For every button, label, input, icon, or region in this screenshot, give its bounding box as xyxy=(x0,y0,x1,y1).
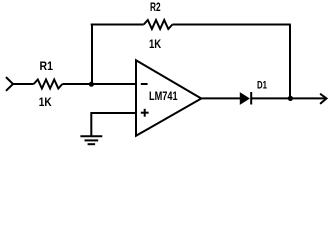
diode D1 xyxy=(240,92,251,105)
resistor R2 xyxy=(144,20,173,29)
svg-text:1K: 1K xyxy=(39,97,53,109)
node junction at inverting input xyxy=(89,82,94,87)
wire feedback left vertical xyxy=(91,25,93,85)
output arrow xyxy=(321,94,327,103)
wire feedback top left xyxy=(91,24,144,26)
wire non-inverting input xyxy=(91,113,136,136)
svg-text:R2: R2 xyxy=(150,2,161,14)
svg-text:1K: 1K xyxy=(149,39,162,51)
ground xyxy=(80,136,102,144)
svg-text:R1: R1 xyxy=(40,61,54,73)
node junction at output xyxy=(288,96,293,101)
wire R1 to inverting input xyxy=(62,83,136,85)
minus sign at inverting input xyxy=(141,83,148,85)
svg-text:LM741: LM741 xyxy=(149,91,178,103)
op-amp U1 LM741 xyxy=(136,60,201,136)
plus sign at non-inverting input xyxy=(141,109,149,117)
wire feedback top right xyxy=(172,24,290,26)
wire op-amp output to diode xyxy=(201,97,240,99)
wire diode to output xyxy=(251,97,326,99)
wire feedback right vertical xyxy=(289,25,291,99)
input port arrow xyxy=(7,78,14,91)
svg-text:D1: D1 xyxy=(257,80,267,92)
wire input to R1 xyxy=(13,83,34,85)
resistor R1 xyxy=(34,80,63,89)
